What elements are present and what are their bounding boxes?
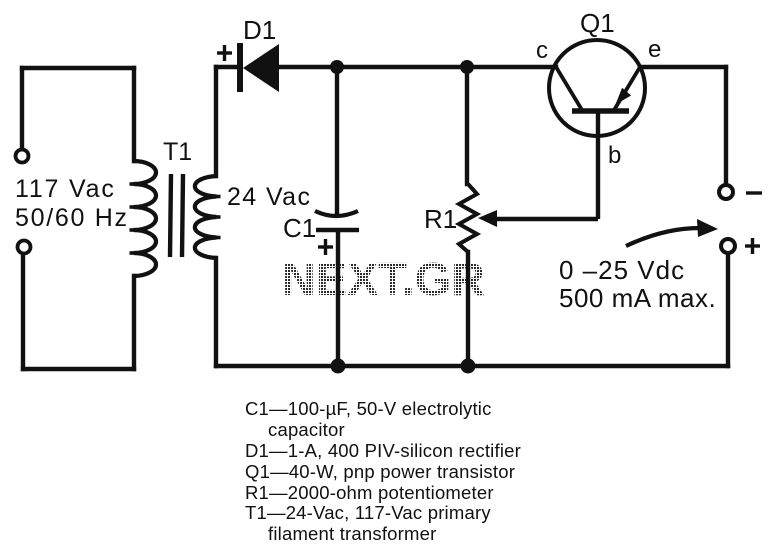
terminal: output plus xyxy=(721,239,735,253)
wire: input box left upper xyxy=(20,68,24,150)
potentiometer R1 wiper arrow xyxy=(478,210,598,227)
capacitor C1 polarity plus xyxy=(318,239,333,255)
potentiometer R1 zigzag xyxy=(459,184,477,252)
transformer T1 secondary cusp ticks xyxy=(214,197,221,238)
svg-text:24 Vac: 24 Vac xyxy=(227,183,311,211)
wire: secondary bottom lead to rail xyxy=(214,258,218,366)
svg-text:filament transformer: filament transformer xyxy=(268,523,437,544)
svg-text:R1—2000-ohm potentiometer: R1—2000-ohm potentiometer xyxy=(245,482,494,503)
diode D1 polarity plus xyxy=(217,45,232,61)
wire: C1 top lead xyxy=(335,67,339,214)
svg-text:e: e xyxy=(648,36,661,63)
svg-text:T1: T1 xyxy=(163,138,192,166)
wire: bottom rail xyxy=(216,364,728,368)
svg-text:C1—100-µF, 50-V electrolytic: C1—100-µF, 50-V electrolytic xyxy=(245,398,492,419)
wire: right drop to minus terminal xyxy=(724,67,728,184)
svg-text:C1: C1 xyxy=(283,213,316,243)
diode D1 triangle xyxy=(243,44,279,92)
svg-text:500 mA max.: 500 mA max. xyxy=(559,283,716,313)
transistor Q1 collector diagonal xyxy=(556,67,582,110)
svg-text:NEXT.GR: NEXT.GR xyxy=(282,253,485,305)
wire: Q1 base lead down xyxy=(596,111,600,219)
svg-text:Q1: Q1 xyxy=(580,8,615,38)
node: rail-C1 junction xyxy=(330,60,344,74)
wire: right rise to plus terminal xyxy=(726,254,730,366)
transformer T1 core xyxy=(170,174,183,257)
transistor Q1 base bar xyxy=(572,108,629,114)
transformer T1 primary winding xyxy=(134,161,157,276)
transformer T1 primary cusp ticks xyxy=(130,184,137,253)
svg-text:b: b xyxy=(608,142,621,169)
wire: R1 bottom lead xyxy=(466,252,470,366)
wire: input box right upper xyxy=(132,68,136,161)
capacitor C1 bottom plate xyxy=(316,228,359,233)
svg-text:D1: D1 xyxy=(243,15,276,45)
terminal: output minus xyxy=(719,185,733,199)
wire: input box bottom xyxy=(23,367,134,371)
terminal: input upper xyxy=(16,150,29,163)
wire: R1 top lead xyxy=(465,67,469,184)
node: rail-R1 junction xyxy=(460,60,474,74)
diode D1 cathode bar xyxy=(237,43,243,92)
wire: top rail diode to Q1 collector xyxy=(280,65,556,69)
svg-text:capacitor: capacitor xyxy=(268,419,345,440)
wire: input box right lower xyxy=(132,276,136,369)
wire: top rail Q1 emitter to right corner xyxy=(640,65,726,69)
adjustment curved arrow xyxy=(626,219,718,246)
label minus sign xyxy=(746,191,762,194)
wire: top rail left of diode xyxy=(216,65,237,69)
label plus sign xyxy=(745,238,760,254)
svg-text:117 Vac: 117 Vac xyxy=(15,175,116,203)
wire: input box top xyxy=(22,66,134,70)
node: bottom R1 junction xyxy=(461,359,476,374)
transformer T1 secondary winding xyxy=(195,176,217,258)
svg-text:Q1—40-W, pnp power transistor: Q1—40-W, pnp power transistor xyxy=(245,461,515,482)
svg-text:D1—1-A, 400 PIV-silicon rectif: D1—1-A, 400 PIV-silicon rectifier xyxy=(245,440,521,461)
transistor Q1 emitter diagonal with arrow xyxy=(614,67,641,111)
svg-text:R1: R1 xyxy=(424,204,457,234)
node: bottom C1 junction xyxy=(331,359,346,374)
svg-text:0 –25 Vdc: 0 –25 Vdc xyxy=(559,255,685,285)
wire: secondary top lead to rail xyxy=(214,67,218,176)
svg-text:50/60 Hz: 50/60 Hz xyxy=(15,204,129,232)
terminal: input lower xyxy=(18,241,31,254)
wire: input box left lower xyxy=(21,253,25,369)
capacitor C1 top plate xyxy=(315,211,358,216)
wire: C1 bottom lead xyxy=(336,231,340,366)
transistor Q1 body circle xyxy=(549,40,645,136)
svg-text:c: c xyxy=(536,37,548,64)
svg-text:T1—24-Vac, 117-Vac primary: T1—24-Vac, 117-Vac primary xyxy=(245,502,491,523)
parts list xyxy=(245,398,521,544)
